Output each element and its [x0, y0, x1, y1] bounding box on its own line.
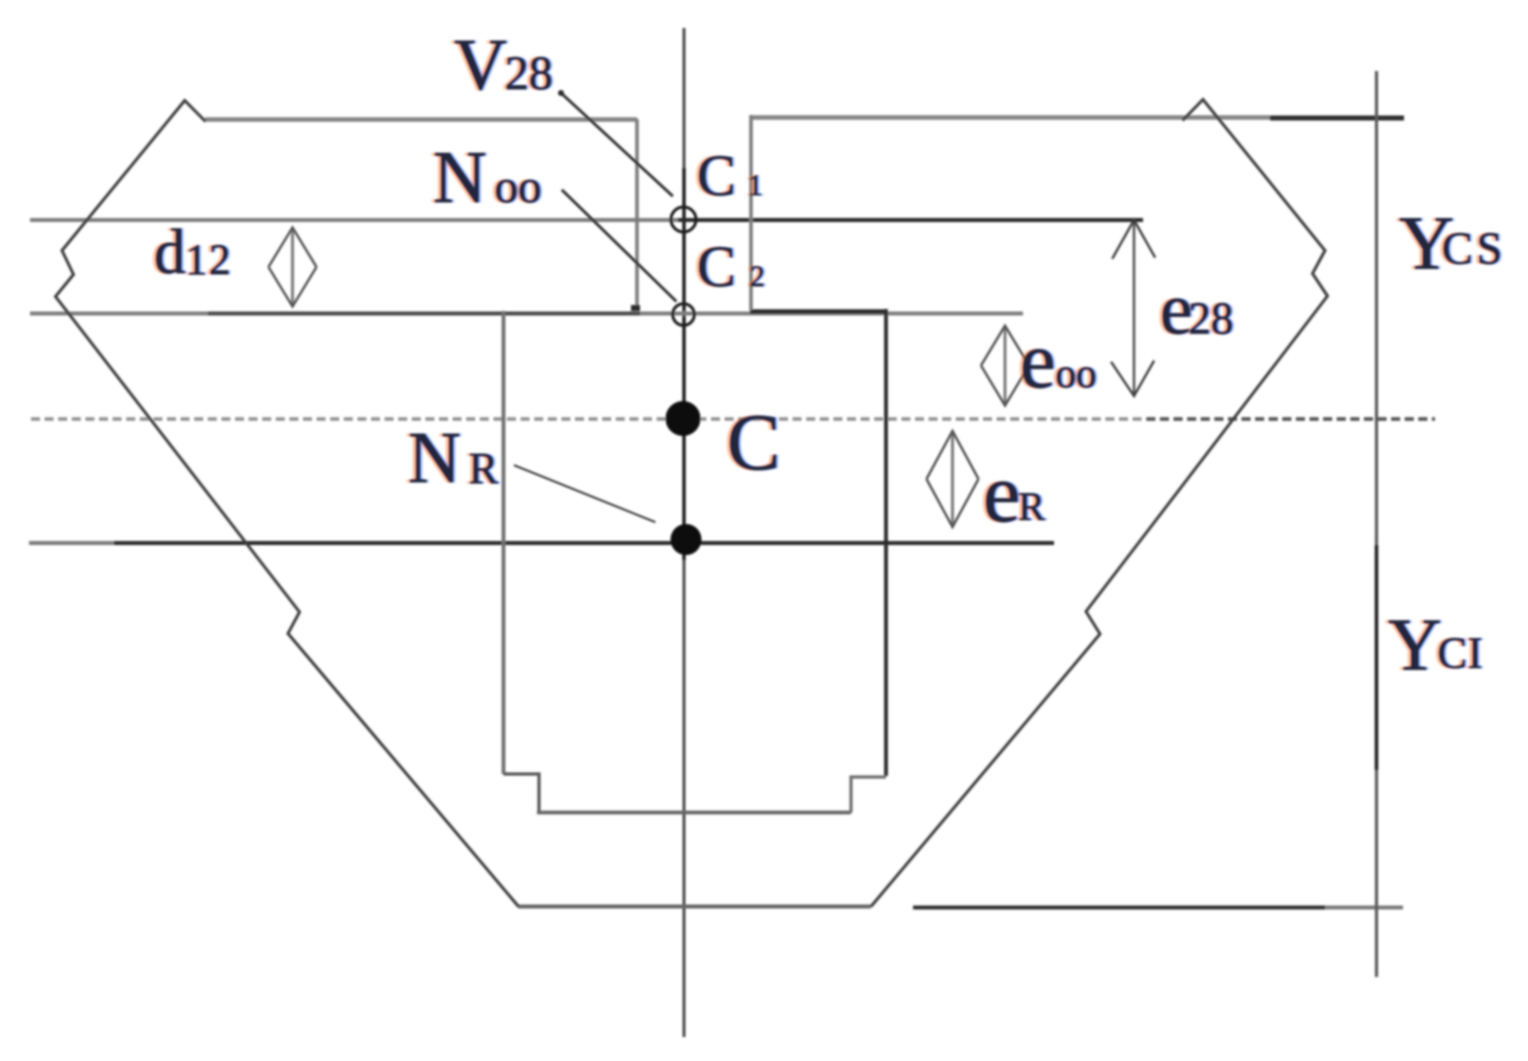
node C2: circle marker — [673, 304, 695, 326]
node: outer outline right half — [871, 100, 1328, 907]
wire: inner box right edge x=886 — [884, 309, 888, 776]
node C: filled centroid dot — [666, 401, 701, 436]
node C1: circle marker — [671, 207, 696, 232]
svg-text:C: C — [727, 399, 780, 487]
svg-text:V28: V28 — [454, 24, 553, 105]
e28 dimension arrow (open head double arrow) — [1111, 220, 1155, 396]
wire: inner box left edge x=503.5 — [502, 311, 506, 774]
node NR: filled dot — [671, 524, 702, 555]
wire: dashed centroid axis y=419 — [31, 417, 1435, 420]
svg-text:eoo: eoo — [1020, 317, 1097, 405]
wire: bottom tick through Yci dimension line — [913, 906, 1325, 910]
wire: inner box left step — [504, 774, 540, 813]
node: outer outline left half — [56, 101, 519, 907]
wire: top centre opening right vertical x=751 — [749, 115, 753, 310]
wire: C1 reference line y=220 — [30, 218, 678, 222]
wire: top centre opening left vertical x=637 — [635, 119, 639, 310]
wire: C2 reference line y=313 — [30, 312, 1023, 316]
wire: inner box right step — [851, 777, 886, 813]
eR dimension arrow (diamond double arrow) — [927, 431, 979, 527]
wire: centre vertical axis — [683, 28, 686, 1037]
wire: top slab line right segment y=119 — [751, 115, 1270, 120]
wire: top tick through Ycs dimension line — [1270, 116, 1404, 121]
svg-text:YCI: YCI — [1388, 604, 1483, 686]
svg-text:eR: eR — [983, 447, 1045, 540]
wire: V28 leader line — [561, 93, 673, 197]
wire: NR reference line y=543 — [29, 541, 114, 545]
svg-text:C2: C2 — [697, 234, 765, 299]
d12 dimension arrow (diamond double arrow) — [269, 228, 317, 307]
node: junction blob at inner box top-left corner — [631, 305, 640, 311]
svg-text:YCS: YCS — [1399, 202, 1506, 286]
eoo dimension arrow (diamond double arrow) — [981, 326, 1029, 406]
wire: right dimension line x=1376.5 — [1375, 71, 1378, 977]
svg-text:e28: e28 — [1160, 269, 1233, 350]
svg-text:d12: d12 — [154, 217, 233, 287]
wire: inner box bottom y=812.5 — [537, 811, 851, 815]
svg-text:C1: C1 — [697, 143, 763, 208]
wire: Noo leader line — [562, 190, 677, 302]
svg-text:Noo: Noo — [433, 137, 541, 219]
wire: outer bottom line y=906.5 — [518, 905, 871, 909]
wire: top slab line left segment y=119 — [205, 117, 637, 122]
wire: NR leader line — [514, 465, 655, 522]
svg-text:NR: NR — [408, 417, 499, 498]
